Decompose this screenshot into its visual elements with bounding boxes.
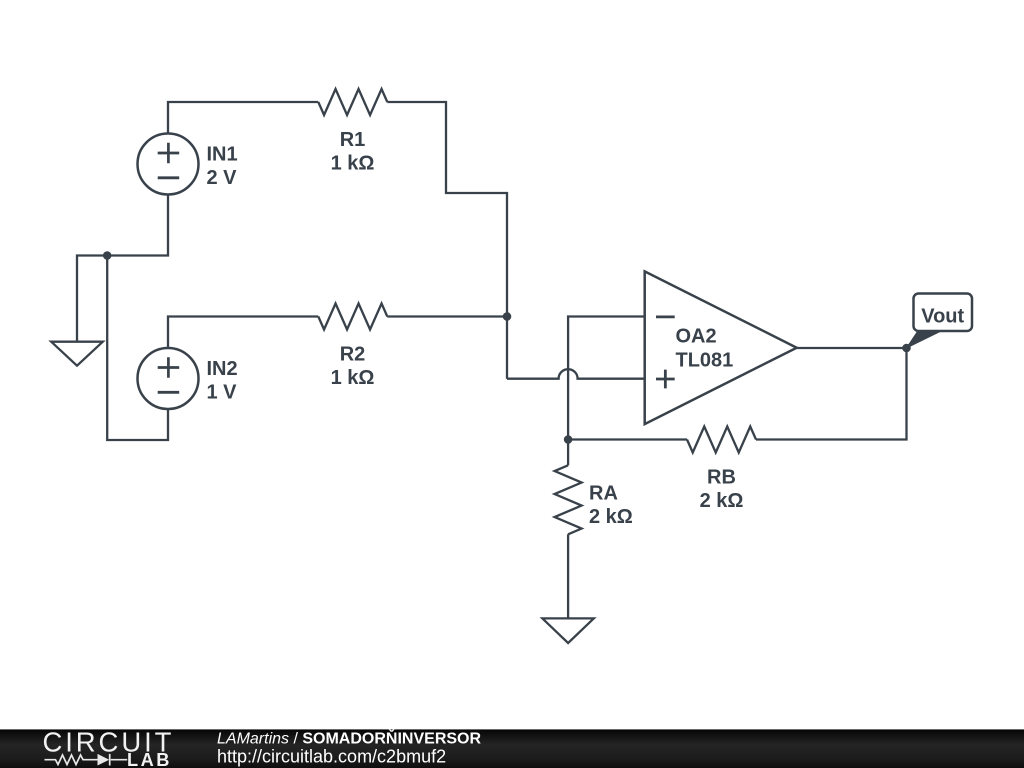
ground GND1 left: [51, 342, 103, 366]
svg-text:LAMartins / SOMADORŇINVERSOR: LAMartins / SOMADORŇINVERSOR: [217, 728, 481, 747]
node junction dot D (output node): [902, 344, 911, 353]
resistor R1: [318, 89, 387, 115]
wire R1 to summing column: [387, 102, 507, 379]
svg-text:2 kΩ: 2 kΩ: [700, 490, 744, 512]
svg-text:Vout: Vout: [921, 305, 964, 327]
svg-text:2 kΩ: 2 kΩ: [589, 506, 633, 528]
resistor RA: [555, 465, 582, 534]
svg-text:RB: RB: [707, 466, 736, 488]
wire minus input: [568, 317, 645, 440]
svg-text:http://circuitlab.com/c2bmuf2: http://circuitlab.com/c2bmuf2: [217, 747, 446, 767]
svg-text:OA2: OA2: [676, 326, 717, 348]
wire IN1 bottom to ground rail: [77, 194, 168, 341]
wire node to op-amp plus input with hop: [507, 369, 645, 379]
svg-text:2 V: 2 V: [207, 167, 238, 189]
net flag Vout: [907, 294, 973, 349]
svg-text:1 kΩ: 1 kΩ: [331, 152, 375, 174]
svg-text:RA: RA: [589, 483, 618, 505]
resistor RB: [687, 427, 756, 453]
wire feedback node to RB: [568, 438, 687, 440]
svg-text:IN2: IN2: [207, 358, 238, 380]
svg-text:TL081: TL081: [676, 350, 734, 372]
resistor R2: [318, 304, 387, 330]
node junction dot A (ground rail): [103, 251, 112, 260]
wire node to RA: [567, 440, 569, 466]
svg-text:IN1: IN1: [207, 143, 238, 165]
ground GND2 bottom: [542, 618, 593, 643]
wire IN1 top to R1: [168, 102, 318, 134]
svg-text:1 kΩ: 1 kΩ: [331, 367, 375, 389]
voltage source IN2: [138, 348, 199, 409]
wire R2 to node: [387, 315, 507, 317]
svg-text:R1: R1: [340, 129, 366, 151]
wire RB to output: [756, 348, 907, 440]
voltage source IN1: [138, 134, 199, 195]
wire rail to IN2 bottom: [107, 256, 168, 441]
op-amp OA2: [645, 271, 797, 424]
svg-text:LAB: LAB: [127, 750, 172, 768]
logo resistor-diode glyph: [45, 754, 128, 766]
wire RA to ground: [567, 534, 569, 618]
svg-text:1 V: 1 V: [207, 382, 238, 404]
node junction dot C (feedback node): [564, 435, 573, 444]
wire op-amp output: [797, 347, 907, 349]
node junction dot B (summing node): [503, 312, 512, 321]
svg-text:R2: R2: [340, 343, 366, 365]
wire IN2 top to R2: [168, 317, 318, 349]
